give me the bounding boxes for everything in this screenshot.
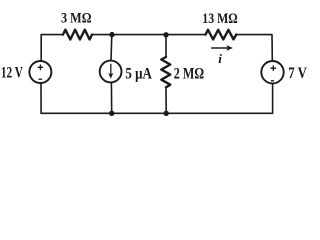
svg-text:3 MΩ: 3 MΩ xyxy=(61,11,92,27)
svg-text:13 MΩ: 13 MΩ xyxy=(202,11,238,27)
svg-text:2 MΩ: 2 MΩ xyxy=(174,66,204,83)
svg-text:i: i xyxy=(218,51,222,66)
svg-text:12 V: 12 V xyxy=(1,64,23,81)
svg-text:5 μA: 5 μA xyxy=(125,66,152,83)
svg-text:7 V: 7 V xyxy=(288,65,307,82)
